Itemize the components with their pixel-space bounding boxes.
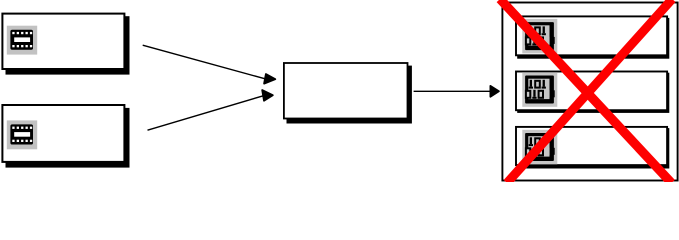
arrowhead of arrow 2	[262, 90, 273, 101]
merge box shadow	[287, 66, 412, 124]
source clip box 2	[2, 105, 124, 162]
film clip icon 1	[7, 26, 37, 55]
film clip icon 2	[7, 120, 37, 149]
arrow line from source box 1 to merge box	[143, 45, 267, 79]
output file box 2	[516, 72, 667, 111]
arrowhead of arrow 1	[264, 74, 275, 84]
output file box 3	[516, 127, 667, 165]
source clip box 2 shadow	[6, 108, 130, 168]
source clip box 1	[2, 14, 124, 69]
binary file icon 1	[522, 19, 557, 54]
merge box	[284, 63, 408, 119]
output file box 1 shadow	[517, 18, 669, 59]
arrow line from source box 2 to merge box	[148, 95, 265, 130]
output group container	[502, 3, 677, 181]
arrowhead of arrow 3	[490, 86, 499, 97]
red X stroke from top-left to bottom-right	[500, 0, 672, 183]
red X stroke from top-right to bottom-left	[507, 0, 672, 183]
output file box 3 shadow	[517, 128, 669, 168]
output file box 2 shadow	[517, 73, 669, 113]
source clip box 1 shadow	[6, 16, 130, 74]
arrow line from merge box to output group	[414, 90, 492, 92]
binary file icon 3	[522, 130, 557, 165]
binary file icon 2	[522, 72, 557, 107]
output file box 1	[516, 16, 667, 55]
